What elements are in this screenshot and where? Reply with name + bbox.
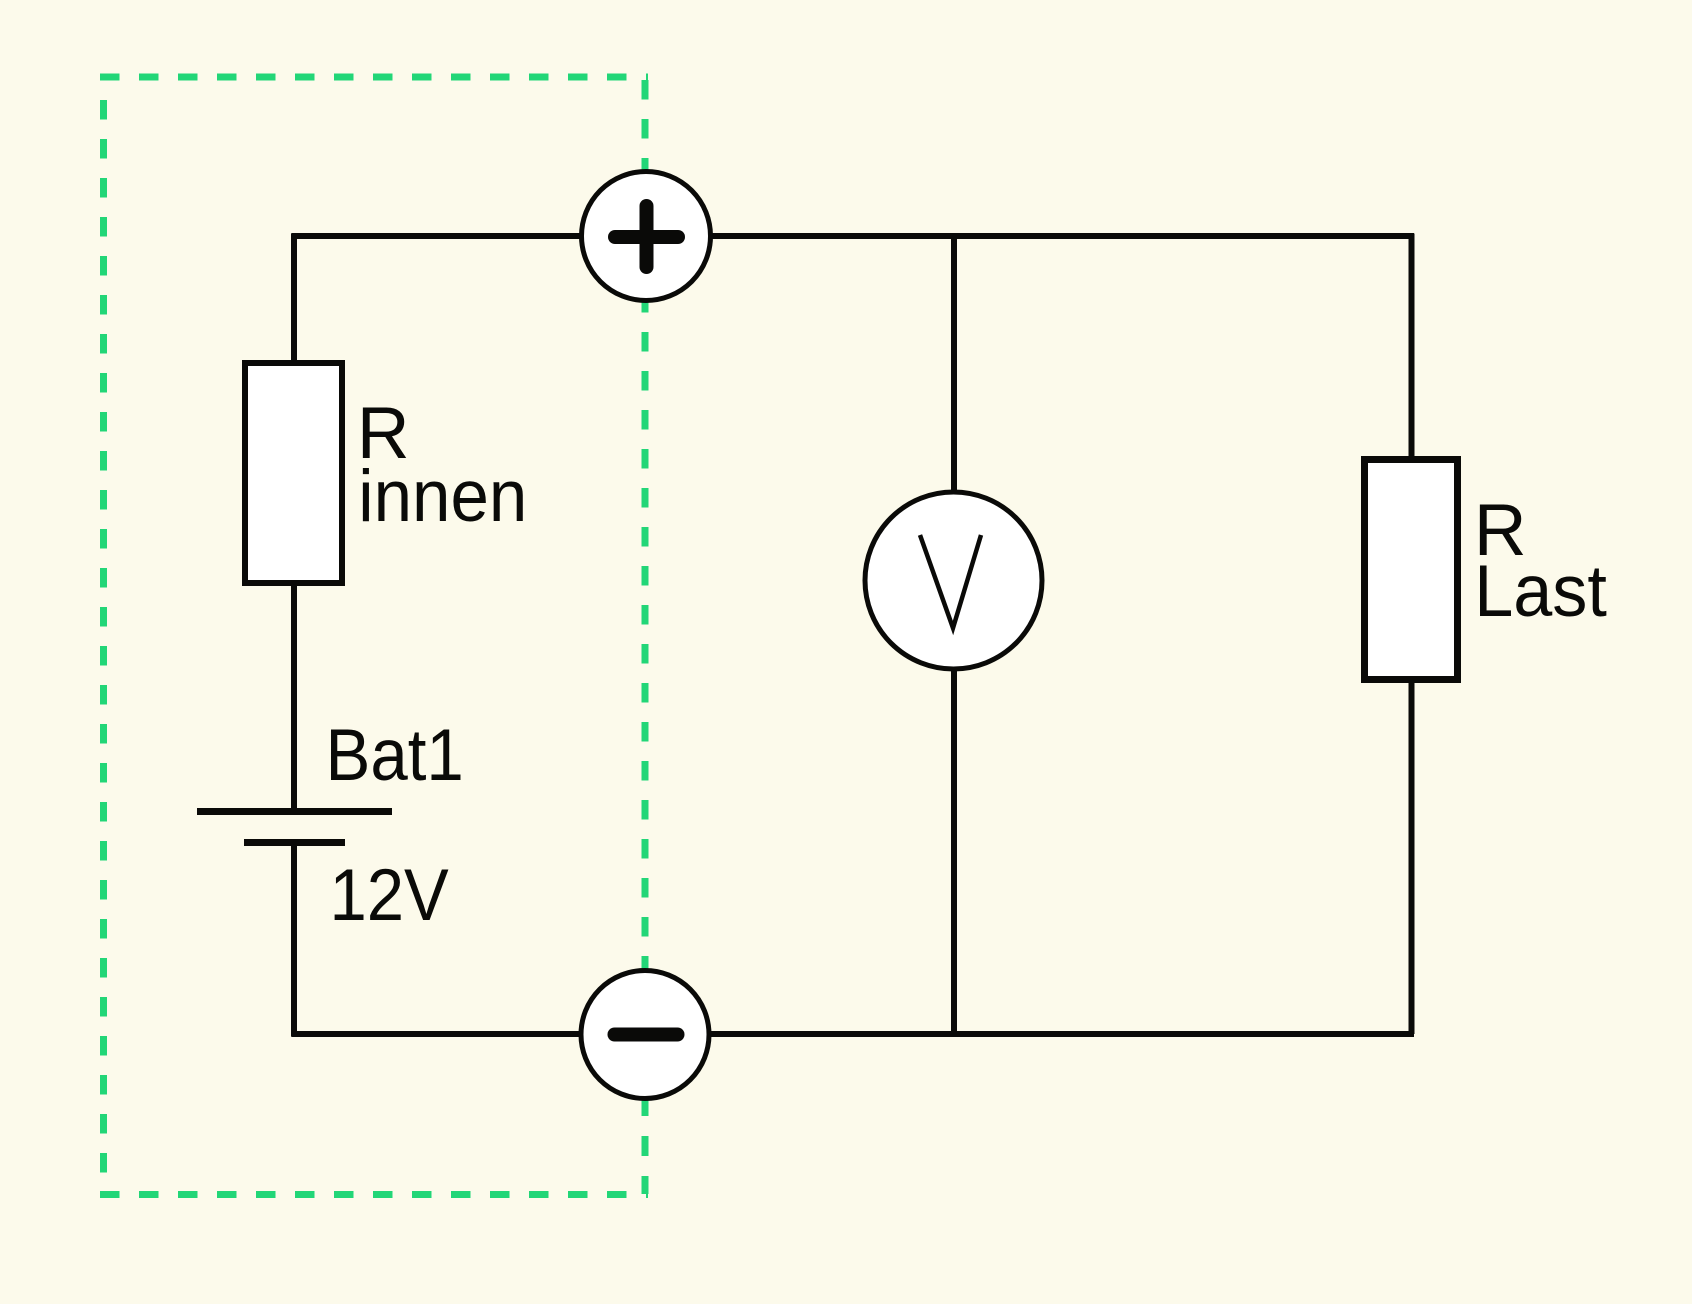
svg-text:innen: innen	[358, 456, 527, 537]
svg-text:12V: 12V	[330, 854, 449, 935]
svg-text:Last: Last	[1474, 551, 1607, 633]
svg-text:Bat1: Bat1	[326, 713, 464, 795]
